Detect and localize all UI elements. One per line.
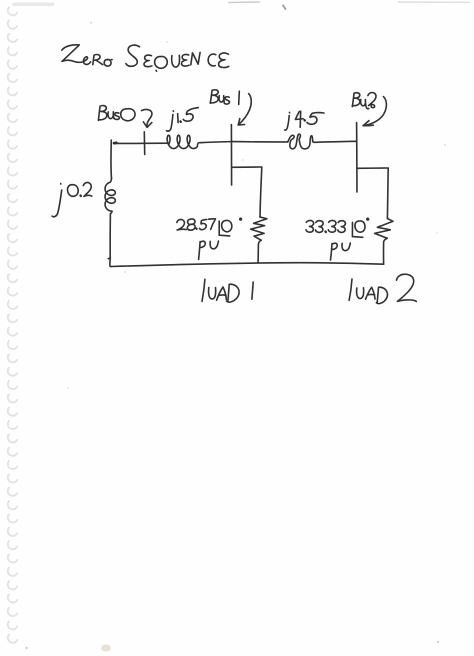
node Bus 1 (vertical bar)	[230, 125, 232, 186]
label "Bus 0"	[98, 106, 135, 121]
inductor j1.5	[167, 135, 200, 148]
title text "Zero"	[62, 45, 112, 66]
wire: load 2 branch vertical (below resistor)	[384, 238, 388, 264]
arrow pointing to Bus 0	[142, 109, 152, 127]
wire: left branch below j0.2	[108, 214, 110, 259]
label "Bus 1"	[210, 90, 239, 105]
wire: left branch above j0.2	[110, 140, 113, 179]
resistor: load 2, 33.33 pu	[375, 219, 393, 239]
inductor j0.2	[105, 179, 115, 214]
arrow pointing to Bus 1	[238, 94, 251, 125]
label "load 1"	[202, 279, 253, 302]
title text "Sequence"	[126, 45, 229, 71]
unit label "pu" under 28.57	[199, 241, 219, 259]
inductor j4.5	[288, 134, 315, 149]
wire: top horizontal, Bus 0 segment	[114, 142, 168, 144]
wire: bottom return	[112, 263, 384, 267]
wire: load 1 branch vertical (below resistor)	[258, 240, 261, 263]
value label "28.57 angle 0 deg" for load 1	[177, 218, 242, 236]
value label "j0.2" for shunt inductor	[52, 182, 92, 216]
wire: load 2 branch vertical (above resistor)	[386, 168, 389, 219]
wire: top horizontal, j1.5 to Bus 1 and Bus 1 to j4.5	[200, 142, 231, 143]
label "load 2"	[349, 274, 416, 303]
wire: stub from Bus 1 to load 1 branch	[232, 166, 262, 168]
wire: stub from Bus 2 to load 2 branch	[357, 167, 388, 169]
node Bus 2 (vertical bar)	[356, 123, 358, 193]
wire: load 1 branch vertical (above resistor)	[260, 167, 262, 217]
wire: bottom-left corner	[110, 258, 112, 266]
value label "j1.5" for series inductor	[167, 108, 199, 132]
node Bus 0 (tick mark)	[143, 132, 145, 155]
wire: top horizontal, j4.5 to Bus 2	[315, 141, 357, 142]
value label "33.33 angle 0 deg" for load 2	[306, 218, 369, 237]
label "Bu 2" (Bus 2)	[352, 93, 376, 109]
resistor: load 1, 28.57 pu	[251, 217, 267, 240]
value label "j4.5" for series inductor	[285, 111, 324, 130]
unit label "pu" under 33.33	[331, 243, 351, 260]
arrow pointing to Bus 2	[363, 97, 386, 126]
